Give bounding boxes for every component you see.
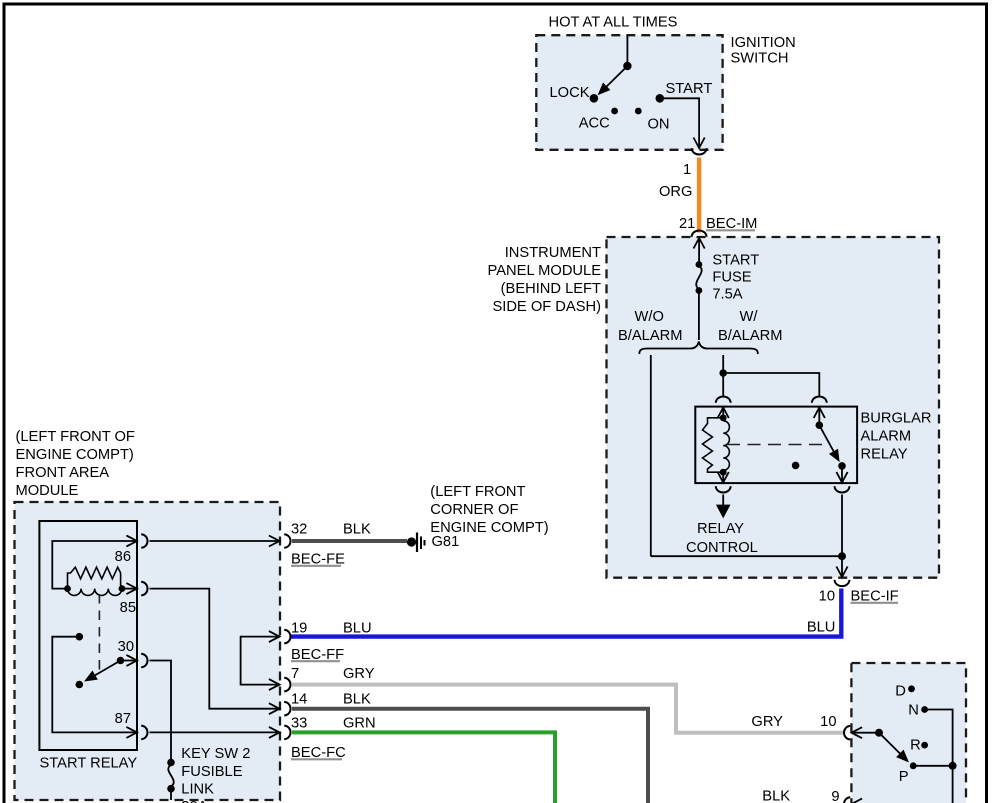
node R xyxy=(921,742,928,749)
relay switch closed contact node xyxy=(838,462,846,470)
pin 86 arrow xyxy=(126,536,137,547)
exit arrows at module edge xyxy=(269,536,280,738)
svg-text:MODULE: MODULE xyxy=(16,483,79,499)
svg-text:IGNITION: IGNITION xyxy=(731,35,796,51)
junction node xyxy=(949,762,957,770)
svg-text:32: 32 xyxy=(291,522,307,538)
arrow exit 19 xyxy=(269,631,280,642)
transmission range switch box xyxy=(851,663,966,803)
wire pin 87 to module edge xyxy=(150,731,278,733)
wire W/O branch down xyxy=(650,355,652,556)
svg-text:10: 10 xyxy=(819,589,835,605)
node ACC xyxy=(611,108,618,115)
svg-text:7.5A: 7.5A xyxy=(712,287,742,303)
svg-text:D: D xyxy=(895,684,906,700)
svg-text:85: 85 xyxy=(120,600,136,616)
svg-text:(LEFT FRONT OF: (LEFT FRONT OF xyxy=(16,429,135,445)
wire junction down to pin 9 xyxy=(860,766,953,803)
svg-text:GRY: GRY xyxy=(343,666,375,682)
instrument panel module box xyxy=(607,237,940,578)
wire W/ branch down xyxy=(722,355,724,373)
wire pin 86 to 32 BLK exit xyxy=(150,540,278,542)
relay mechanical link dashed xyxy=(727,444,824,446)
svg-text:START: START xyxy=(666,81,713,97)
wire 7 GRY xyxy=(292,685,844,733)
svg-text:FRONT AREA: FRONT AREA xyxy=(16,465,110,481)
connector arc at range switch pin 9 xyxy=(844,797,850,803)
connector arc at instrument panel module entry xyxy=(692,231,707,237)
pin 30 wire and arrow xyxy=(121,655,138,666)
svg-text:SWITCH: SWITCH xyxy=(731,51,789,67)
relay switch open contact node xyxy=(792,462,800,470)
connector arcs at module edge xyxy=(284,534,290,739)
svg-text:(LEFT FRONT: (LEFT FRONT xyxy=(430,484,525,500)
left front area module labels xyxy=(16,429,135,499)
svg-text:BLU: BLU xyxy=(343,621,372,637)
start relay lower contact node xyxy=(76,681,84,689)
svg-text:RELAY: RELAY xyxy=(697,521,744,537)
node LOCK xyxy=(590,94,599,103)
start relay coil winding humps xyxy=(68,589,122,596)
wire upper contact to pin 87 rail xyxy=(52,637,135,733)
wire pin 85 to 14 BLK exit xyxy=(150,589,278,709)
svg-text:ENGINE COMPT): ENGINE COMPT) xyxy=(430,520,548,536)
start relay mechanical link dashed xyxy=(98,594,100,670)
svg-text:FUSIBLE: FUSIBLE xyxy=(181,764,242,780)
svg-text:CONTROL: CONTROL xyxy=(686,540,758,556)
svg-text:14: 14 xyxy=(291,692,307,708)
pin 85 wire and arrow xyxy=(122,583,137,594)
svg-text:RELAY: RELAY xyxy=(861,447,908,463)
arrow exit 32 xyxy=(269,536,280,547)
svg-text:86: 86 xyxy=(115,549,131,565)
wire coil feed down xyxy=(722,373,724,396)
option brace xyxy=(639,342,757,355)
ignition switch pivot node xyxy=(623,62,631,70)
ignition switch module box xyxy=(536,35,722,150)
relay switch bottom pin arrow down xyxy=(836,466,847,483)
svg-text:HOT AT ALL TIMES: HOT AT ALL TIMES xyxy=(549,15,678,31)
relay control wire with end arrow xyxy=(717,495,729,517)
wire from relay switch to output junction xyxy=(841,495,843,557)
svg-text:ON: ON xyxy=(648,117,670,133)
range switch pivot node xyxy=(875,729,883,737)
wire from START contact down to connector pin 1 xyxy=(660,98,705,148)
connector arc pin 86 xyxy=(141,534,147,548)
connector arc above relay coil pin xyxy=(716,397,731,403)
relay coil top node xyxy=(720,414,727,421)
connector arc below relay switch pin xyxy=(835,486,850,492)
svg-text:30: 30 xyxy=(118,639,134,655)
svg-text:ORG: ORG xyxy=(659,184,692,200)
connector arc above relay switch pin xyxy=(812,397,827,403)
svg-text:B/ALARM: B/ALARM xyxy=(618,328,682,344)
svg-text:10: 10 xyxy=(820,714,836,730)
svg-text:R: R xyxy=(910,738,921,754)
ignition switch armature arrow to LOCK xyxy=(599,66,628,94)
wire from fuse to option brace xyxy=(698,291,700,341)
fuse START FUSE 7.5A xyxy=(696,261,703,268)
ground G81 xyxy=(407,537,416,546)
svg-text:W/O: W/O xyxy=(635,309,664,325)
svg-text:30A: 30A xyxy=(181,799,207,803)
node at W/ branch split xyxy=(719,369,727,377)
wire BLU xyxy=(291,589,841,637)
wire ORG xyxy=(697,158,701,233)
svg-text:87: 87 xyxy=(115,711,131,727)
wire from hot feed into ignition switch xyxy=(626,35,628,66)
pin 9 exit arrow xyxy=(852,799,863,803)
svg-text:BLK: BLK xyxy=(762,789,790,803)
node ON xyxy=(635,108,642,115)
svg-text:G81: G81 xyxy=(432,534,460,550)
svg-text:BLK: BLK xyxy=(343,692,371,708)
start relay coil left node xyxy=(64,585,71,592)
svg-text:W/: W/ xyxy=(740,309,759,325)
pin 10 entry arrow pointing left xyxy=(852,727,880,738)
svg-text:1: 1 xyxy=(683,162,691,178)
svg-text:INSTRUMENT: INSTRUMENT xyxy=(505,245,601,261)
relay switch pin arrow up xyxy=(814,408,825,426)
svg-text:P: P xyxy=(899,769,909,785)
svg-text:START: START xyxy=(712,253,759,269)
output junction node xyxy=(838,552,846,560)
relay coil bottom node xyxy=(720,469,727,476)
arrow exit 14 xyxy=(269,703,280,714)
relay coil winding humps xyxy=(723,421,729,472)
label LEFT FRONT CORNER OF ENGINE COMPT xyxy=(430,484,548,536)
svg-text:N: N xyxy=(908,703,919,719)
node N xyxy=(921,706,928,713)
svg-text:33: 33 xyxy=(291,715,307,731)
connector arc below relay coil pin xyxy=(716,486,731,492)
svg-text:21: 21 xyxy=(679,216,695,232)
wire P to junction xyxy=(913,765,952,767)
svg-text:GRN: GRN xyxy=(343,715,376,731)
wire 32 BLK to ground xyxy=(292,539,407,543)
fusible link KEY SW 2 xyxy=(167,759,175,767)
start relay resistor zigzag xyxy=(68,567,121,588)
wire W/O branch joining output xyxy=(651,555,842,557)
svg-text:(BEHIND LEFT: (BEHIND LEFT xyxy=(501,281,601,297)
svg-text:FUSE: FUSE xyxy=(712,270,751,286)
burglar alarm relay box xyxy=(695,407,857,484)
svg-text:SIDE OF DASH): SIDE OF DASH) xyxy=(492,299,601,315)
start relay armature arrow xyxy=(85,661,120,681)
start relay pivot node pin 30 xyxy=(117,657,125,665)
svg-text:19: 19 xyxy=(291,621,307,637)
svg-text:BURGLAR: BURGLAR xyxy=(861,411,932,427)
svg-text:B/ALARM: B/ALARM xyxy=(718,328,782,344)
svg-text:BLK: BLK xyxy=(343,522,371,538)
pin 86 wire inside relay xyxy=(52,541,135,589)
wire 14 BLK xyxy=(292,709,648,803)
svg-text:LINK: LINK xyxy=(181,782,214,798)
connector arc below ignition switch xyxy=(692,148,707,154)
node D xyxy=(908,685,915,692)
svg-text:LOCK: LOCK xyxy=(550,85,590,101)
connector arc pin 30 xyxy=(141,654,147,668)
start relay upper contact node xyxy=(76,633,84,641)
svg-text:CORNER OF: CORNER OF xyxy=(430,502,518,518)
start relay coil right node xyxy=(119,585,126,592)
pin 87 arrow xyxy=(126,727,137,738)
wire to module output pin 10 with arrow xyxy=(836,556,847,577)
internal jumper pins 19-7 xyxy=(241,637,277,685)
relay switch armature arrow xyxy=(819,425,839,461)
relay switch pivot node xyxy=(816,421,824,429)
svg-text:ACC: ACC xyxy=(579,116,610,132)
wire 33 GRN xyxy=(292,732,555,803)
label INSTRUMENT PANEL MODULE (BEHIND LEFT SIDE OF DASH) xyxy=(488,245,602,315)
svg-text:GRY: GRY xyxy=(751,714,783,730)
relay coil resistor zigzag xyxy=(703,418,724,472)
wire N to junction xyxy=(925,710,953,766)
front area module box xyxy=(15,502,281,800)
svg-text:START RELAY: START RELAY xyxy=(40,756,138,772)
svg-text:KEY SW 2: KEY SW 2 xyxy=(181,746,250,762)
connector arc pin 87 xyxy=(141,726,147,740)
svg-text:PANEL MODULE: PANEL MODULE xyxy=(488,263,602,279)
entry wire with arrow into module pin 21 xyxy=(694,238,705,263)
wire pin 30 to fusible link xyxy=(150,661,172,761)
arrow exit 33 xyxy=(269,727,280,738)
svg-text:BLU: BLU xyxy=(807,620,836,636)
node P xyxy=(910,762,917,769)
svg-text:9: 9 xyxy=(831,789,839,803)
connector arc pin 85 xyxy=(141,582,147,596)
svg-text:ALARM: ALARM xyxy=(861,429,912,445)
node START xyxy=(656,94,665,103)
connector arc below instrument module pin 10 xyxy=(835,580,850,586)
start relay box xyxy=(39,521,137,750)
svg-text:ENGINE COMPT): ENGINE COMPT) xyxy=(16,447,134,463)
relay coil pin arrow up xyxy=(718,408,729,419)
range switch armature arrow toward P xyxy=(879,733,908,762)
arrow exit 7 xyxy=(269,679,280,690)
svg-text:7: 7 xyxy=(291,666,299,682)
wire split to relay switch side xyxy=(723,373,819,396)
relay coil bottom pin arrow down xyxy=(718,472,729,483)
connector arc at range switch pin 10 xyxy=(844,726,850,740)
